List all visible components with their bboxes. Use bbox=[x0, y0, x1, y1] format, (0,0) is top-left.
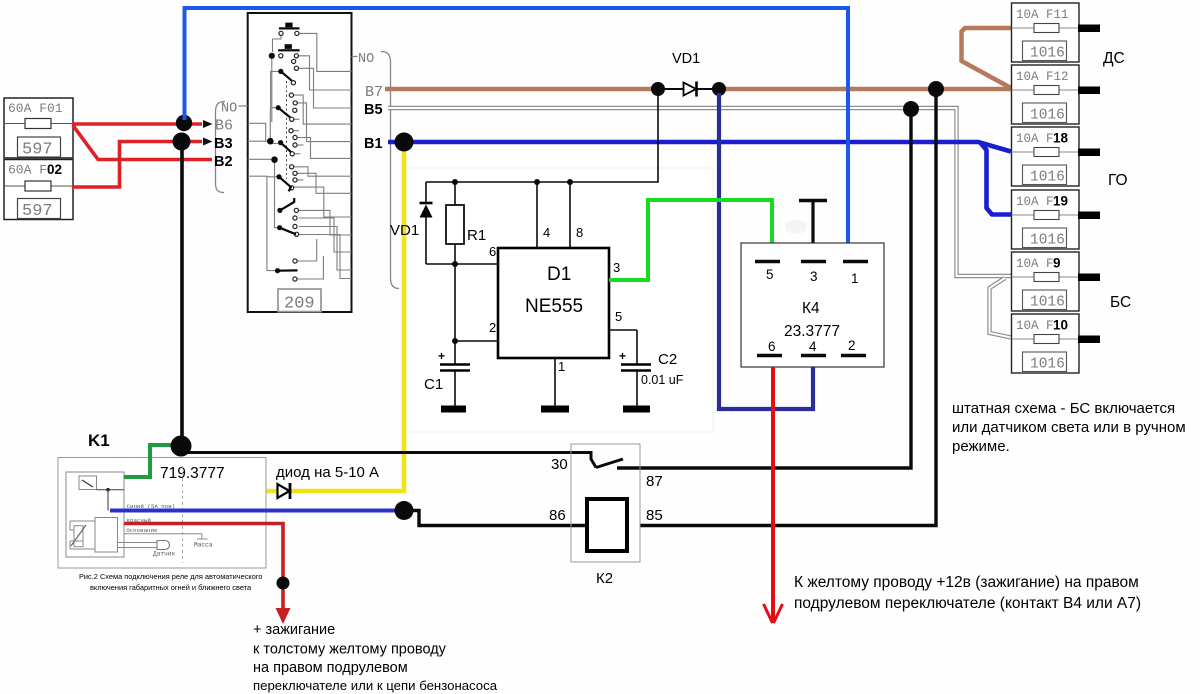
svg-text:86: 86 bbox=[549, 507, 566, 524]
svg-text:60A F: 60A F bbox=[8, 163, 47, 178]
svg-text:719.3777: 719.3777 bbox=[160, 465, 225, 482]
svg-text:B5: B5 bbox=[364, 102, 383, 118]
svg-text:B2: B2 bbox=[214, 154, 233, 170]
resistor R1 bbox=[446, 205, 464, 244]
svg-text:5: 5 bbox=[615, 309, 622, 324]
relay K2 coil bbox=[587, 499, 627, 551]
svg-text:C1: C1 bbox=[424, 376, 443, 393]
diode VD1 on B7 line: wires bbox=[662, 88, 684, 90]
svg-text:85: 85 bbox=[646, 507, 663, 524]
faint blob artifact bbox=[785, 220, 807, 234]
svg-text:87: 87 bbox=[646, 473, 663, 490]
svg-text:+: + bbox=[438, 349, 445, 363]
svg-text:1016: 1016 bbox=[1030, 46, 1065, 62]
svg-text:к толстому желтому проводу: к толстому желтому проводу bbox=[253, 642, 447, 658]
relay K1 thermistor bbox=[74, 526, 83, 547]
svg-text:ДС: ДС bbox=[1103, 50, 1125, 67]
svg-text:8: 8 bbox=[576, 225, 583, 240]
svg-text:10A F11: 10A F11 bbox=[1016, 8, 1069, 22]
wire blue K1 (Синий) to junction bbox=[110, 509, 402, 513]
wire brown branch to F11 bbox=[962, 28, 1012, 88]
svg-text:10A F: 10A F bbox=[1016, 195, 1054, 209]
svg-text:К желтому проводу +12в (зажига: К желтому проводу +12в (зажигание) на пр… bbox=[794, 574, 1139, 591]
wire yellow already drawn; diode on yellow: symbol bbox=[278, 484, 290, 498]
arrowhead at B3 bbox=[203, 138, 213, 146]
svg-text:или датчиком света или в ручно: или датчиком света или в ручном bbox=[952, 419, 1186, 436]
fuse F18 bbox=[1012, 127, 1101, 186]
svg-text:4: 4 bbox=[809, 339, 817, 354]
svg-text:B3: B3 bbox=[214, 136, 233, 152]
svg-text:597: 597 bbox=[22, 202, 53, 221]
svg-text:+: + bbox=[619, 349, 626, 363]
fuse F01 bbox=[4, 98, 73, 160]
svg-text:VD1: VD1 bbox=[672, 51, 700, 67]
node junction dot blue/black bbox=[395, 501, 414, 520]
svg-text:3: 3 bbox=[810, 269, 818, 284]
svg-text:C2: C2 bbox=[658, 351, 677, 368]
dashed separator inside K1 bbox=[182, 466, 184, 563]
switch block dotted guide line bbox=[286, 81, 288, 179]
svg-text:597: 597 bbox=[22, 141, 53, 160]
arrowhead red K1 bbox=[276, 608, 291, 624]
svg-text:БС: БС bbox=[1110, 294, 1131, 311]
svg-text:Датчик: Датчик bbox=[153, 551, 176, 558]
sensor bulb symbol bbox=[157, 541, 170, 550]
node NO bracket right bbox=[352, 52, 400, 289]
diode VD1 (vertical, at R1) bbox=[420, 202, 433, 205]
wire black blue-junction to K2 86 bbox=[407, 511, 587, 526]
diode VD1 on B7 line: symbol bbox=[684, 83, 697, 96]
svg-text:5: 5 bbox=[766, 267, 774, 282]
svg-text:6: 6 bbox=[768, 339, 776, 354]
arrowhead at B6 bbox=[203, 120, 213, 128]
svg-text:1016: 1016 bbox=[1030, 357, 1065, 373]
svg-text:ГО: ГО bbox=[1108, 172, 1128, 189]
node junction on B6 (blue meets red) bbox=[176, 115, 192, 131]
fuse F11 bbox=[1012, 3, 1101, 62]
svg-text:VD1: VD1 bbox=[390, 222, 419, 239]
svg-text:2: 2 bbox=[489, 320, 496, 335]
svg-text:B6: B6 bbox=[215, 118, 233, 135]
svg-text:штатная схема - БС включается: штатная схема - БС включается bbox=[952, 400, 1175, 417]
relay K1 contact lever bbox=[82, 480, 93, 487]
arrowhead red bottom bbox=[764, 604, 783, 623]
wire black B3 junction down to K1 junction bbox=[180, 145, 184, 442]
wire blue bright: top rail from B6 junction to K4 pin 1 bbox=[185, 8, 849, 243]
relay K2 switch lever bbox=[596, 459, 623, 468]
wire brown B7 left segment bbox=[385, 87, 658, 92]
node rail junction dots bbox=[452, 179, 573, 344]
svg-text:0.01 uF: 0.01 uF bbox=[641, 373, 684, 387]
node junction dot on B7 brown line bbox=[928, 81, 944, 97]
switch block S1 (column switch 209) body bbox=[248, 13, 352, 312]
svg-text:30: 30 bbox=[551, 456, 568, 473]
wire blue branch to F19 bbox=[981, 144, 1011, 215]
wire green K1 to black junction bbox=[124, 445, 176, 477]
svg-text:10A F: 10A F bbox=[1016, 132, 1054, 146]
ground under C2 bbox=[623, 406, 650, 413]
svg-text:1016: 1016 bbox=[1030, 170, 1065, 186]
capacitor C2 bbox=[621, 363, 651, 366]
node junction dot B7 left of diode bbox=[651, 82, 665, 96]
wire black T-stub to K4 pin 3 bbox=[811, 202, 814, 245]
ground under pin 1 bbox=[541, 406, 569, 413]
node junction dot B7 right of diode bbox=[712, 82, 726, 96]
node NO bracket left bbox=[216, 102, 248, 193]
wire yellow B1 junction to K1 contact bbox=[123, 144, 404, 491]
fuse F9 bbox=[1012, 252, 1101, 311]
push-button contact P2 bbox=[278, 44, 299, 51]
svg-text:1: 1 bbox=[851, 271, 859, 286]
svg-text:6: 6 bbox=[489, 244, 496, 259]
svg-text:3: 3 bbox=[613, 260, 620, 275]
svg-text:R1: R1 bbox=[467, 227, 486, 244]
relay K2 body bbox=[571, 444, 640, 562]
switch levers with pivots bbox=[278, 71, 298, 270]
relay K1 contact sub-box bbox=[79, 476, 97, 490]
svg-text:60A F01: 60A F01 bbox=[8, 101, 63, 116]
ground under C1 bbox=[441, 406, 466, 413]
relay K1 coil box bbox=[95, 518, 118, 553]
node junction K1 green/black bbox=[171, 436, 192, 457]
svg-text:К4: К4 bbox=[802, 300, 820, 317]
svg-text:B7: B7 bbox=[365, 84, 383, 101]
svg-text:9: 9 bbox=[1053, 256, 1061, 271]
svg-text:включения габаритных огней и б: включения габаритных огней и ближнего св… bbox=[90, 583, 252, 592]
relay K1 inner body bbox=[66, 472, 124, 557]
svg-text:4: 4 bbox=[543, 225, 550, 240]
node junction on B3 (black drop) bbox=[173, 133, 191, 151]
svg-text:10A F: 10A F bbox=[1016, 319, 1054, 333]
node junction dot on red (K1 drop) bbox=[277, 577, 290, 590]
svg-text:23.3777: 23.3777 bbox=[784, 323, 840, 340]
svg-text:2: 2 bbox=[848, 338, 856, 353]
wire black K1 junction to K2 pin 30 bbox=[186, 453, 596, 468]
svg-text:диод на 5-10 А: диод на 5-10 А bbox=[276, 464, 379, 481]
wire grey link F9 to F10 bbox=[990, 278, 1012, 338]
relay K1 ground line (Основание) bbox=[124, 533, 202, 535]
push-button contact P1 bbox=[279, 23, 300, 30]
svg-text:подрулевом переключателе (конт: подрулевом переключателе (контакт В4 или… bbox=[794, 595, 1141, 612]
svg-text:NO: NO bbox=[221, 102, 237, 117]
svg-text:1016: 1016 bbox=[1030, 108, 1065, 124]
svg-text:B1: B1 bbox=[364, 136, 383, 152]
wire grey B5 cable to F9 bbox=[388, 108, 1011, 276]
wire green 555 pin3 to K4 pin 5 bbox=[609, 200, 772, 280]
node junction dot on B5 grey line bbox=[903, 101, 919, 117]
svg-text:Основание: Основание bbox=[126, 527, 158, 534]
background panel behind 555 timer sub-circuit bbox=[405, 168, 713, 432]
fuse F02 bbox=[4, 160, 73, 222]
wire navy from B7 junction to K4 pin 4 bbox=[719, 93, 813, 409]
svg-text:+ зажигание: + зажигание bbox=[253, 622, 335, 638]
relay K4 body bbox=[741, 243, 884, 367]
svg-text:10A F: 10A F bbox=[1016, 257, 1054, 271]
svg-text:02: 02 bbox=[47, 162, 62, 177]
wire black K2 85 to right vertical and up to B7 junction bbox=[640, 93, 936, 526]
fuse F19 bbox=[1012, 190, 1101, 249]
svg-text:NE555: NE555 bbox=[525, 296, 583, 317]
switch block label 209 bbox=[278, 289, 321, 312]
svg-text:на правом подрулевом: на правом подрулевом bbox=[253, 660, 408, 676]
svg-text:NO: NO bbox=[358, 52, 374, 67]
svg-text:D1: D1 bbox=[547, 264, 571, 285]
svg-text:режиме.: режиме. bbox=[952, 438, 1010, 455]
svg-text:10: 10 bbox=[1053, 318, 1068, 333]
wire red K4 pin6 down (to +12 ignition note) bbox=[771, 367, 775, 620]
svg-text:1016: 1016 bbox=[1030, 295, 1065, 311]
svg-text:18: 18 bbox=[1053, 131, 1069, 146]
wire black 555 supply rail bbox=[426, 92, 658, 406]
svg-text:209: 209 bbox=[284, 295, 315, 314]
relay K1 outer box bbox=[58, 458, 266, 569]
svg-text:K1: K1 bbox=[88, 431, 110, 450]
svg-text:переключателе или к цепи бензо: переключателе или к цепи бензонасоса bbox=[253, 678, 498, 693]
wire brown B7 right segment to F12 bbox=[719, 87, 1011, 92]
op-amp U1 (555 timer D1) body bbox=[498, 248, 609, 358]
svg-text:1016: 1016 bbox=[1030, 233, 1065, 249]
switch block internal routing wires bbox=[248, 33, 352, 279]
svg-text:К2: К2 bbox=[596, 570, 613, 587]
svg-text:19: 19 bbox=[1053, 194, 1068, 209]
wire red K1 (Красный) down to ignition bbox=[124, 524, 283, 613]
capacitor C1 bbox=[440, 363, 470, 366]
switch contact circles bbox=[279, 31, 299, 281]
wire black K2 87 to right vertical and up to B5 junction bbox=[617, 112, 911, 468]
relay K1 wires to Датчик (sensor) bbox=[118, 542, 158, 544]
fuse F12 bbox=[1012, 65, 1101, 124]
node junction dot B1/yellow bbox=[395, 133, 414, 152]
svg-text:10A F12: 10A F12 bbox=[1016, 70, 1069, 84]
svg-text:Рис.2 Схема подключения реле д: Рис.2 Схема подключения реле для автомат… bbox=[79, 572, 262, 581]
svg-text:Масса: Масса bbox=[194, 542, 213, 549]
wire red F01 to B2 bbox=[73, 126, 212, 160]
fuse F10 bbox=[1012, 314, 1101, 373]
wire red F01 to B6 bbox=[72, 122, 202, 126]
svg-text:1: 1 bbox=[558, 359, 565, 374]
wire red F02 to B3 bbox=[72, 142, 202, 188]
wire blue B1 to F18 bbox=[388, 142, 1011, 152]
